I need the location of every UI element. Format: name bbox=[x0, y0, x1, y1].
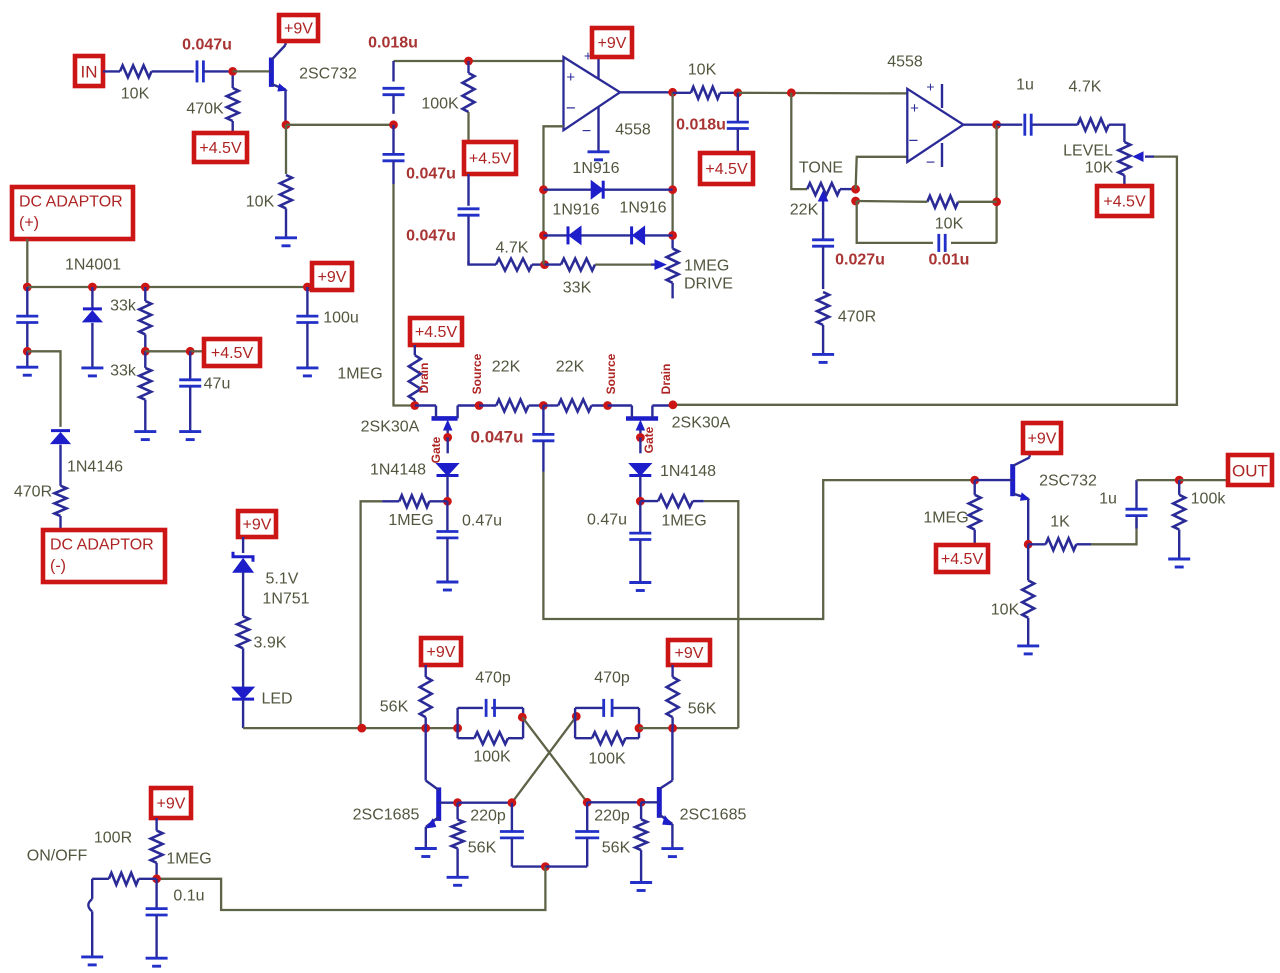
svg-text:0.018u: 0.018u bbox=[676, 117, 726, 134]
svg-text:+4.5V: +4.5V bbox=[199, 140, 242, 157]
wire fb right column bbox=[671, 92, 673, 235]
svg-text:33k: 33k bbox=[110, 298, 137, 315]
label 1MEG drive bbox=[684, 258, 729, 275]
svg-text:2SC732: 2SC732 bbox=[299, 66, 357, 83]
node rail divider bbox=[141, 283, 150, 292]
ground 33k bbox=[134, 432, 156, 440]
label 33K bbox=[563, 280, 592, 297]
wire node A to Q1 base bbox=[233, 70, 269, 72]
label 100R bbox=[94, 830, 132, 847]
wire 1u to out node bbox=[1137, 479, 1180, 481]
svg-text:2SC1685: 2SC1685 bbox=[353, 807, 420, 824]
svg-text:4558: 4558 bbox=[615, 122, 651, 139]
resistor 10K opamp2 fb bbox=[927, 196, 958, 208]
label 470R tone bbox=[838, 309, 876, 326]
wire +4.5V to cap bbox=[467, 174, 469, 206]
resistor 10K post opamp1 bbox=[673, 87, 738, 99]
label 0.47u right bbox=[587, 512, 627, 529]
svg-text:100u: 100u bbox=[323, 310, 359, 327]
label 1MEG drain bias bbox=[337, 366, 382, 383]
svg-text:33K: 33K bbox=[563, 280, 592, 297]
wire 0.01u rail bbox=[857, 201, 933, 243]
label 56K right base bbox=[602, 840, 631, 857]
svg-text:+9V: +9V bbox=[427, 644, 456, 661]
svg-text:+9V: +9V bbox=[284, 21, 313, 38]
wire dc+ down bbox=[26, 239, 28, 287]
resistor 33k lower bbox=[139, 351, 151, 431]
svg-text:0.1u: 0.1u bbox=[173, 888, 204, 905]
wire fb2 right bbox=[958, 201, 997, 203]
svg-text:1N4148: 1N4148 bbox=[370, 462, 426, 479]
wire left gate lead bbox=[447, 437, 449, 453]
ground 0.47u right bbox=[629, 583, 651, 591]
svg-text:1N751: 1N751 bbox=[262, 591, 309, 608]
label 1N4148 right bbox=[660, 463, 716, 480]
label 2SC1685 right bbox=[680, 807, 747, 824]
svg-text:2SK30A: 2SK30A bbox=[672, 415, 731, 432]
svg-text:100K: 100K bbox=[473, 749, 511, 766]
svg-text:1N4001: 1N4001 bbox=[65, 257, 121, 274]
node right drain bbox=[669, 400, 678, 409]
label 470K bbox=[186, 101, 224, 118]
svg-text:100K: 100K bbox=[588, 751, 626, 768]
wire diode rail top bbox=[544, 188, 673, 190]
svg-text:0.47u: 0.47u bbox=[587, 512, 627, 529]
potentiometer LEVEL 10K bbox=[1118, 142, 1130, 186]
capacitor 470p right bbox=[604, 699, 612, 717]
transistor Q5 2SC1685 left bbox=[426, 728, 458, 848]
node post 10K bbox=[733, 88, 742, 97]
node left gate bbox=[443, 433, 452, 442]
svg-text:IN: IN bbox=[81, 63, 98, 82]
label 2SK30A right bbox=[672, 415, 731, 432]
svg-text:470R: 470R bbox=[838, 309, 876, 326]
svg-text:1N916: 1N916 bbox=[572, 160, 619, 177]
wire R to C 0.047u bbox=[152, 70, 194, 72]
capacitor 0.01u bbox=[939, 234, 945, 252]
label 1N4146 bbox=[67, 459, 123, 476]
wire 3.9K to LED bbox=[242, 648, 244, 688]
node opamp1 plus rail bbox=[464, 57, 473, 66]
node combo right cross bbox=[572, 712, 581, 721]
wire cross right to left base bbox=[512, 716, 576, 802]
wire opamp2 output bbox=[963, 123, 996, 125]
wire 220p common to switch bbox=[157, 867, 546, 910]
label 220p right bbox=[594, 808, 630, 825]
label 4558 first bbox=[615, 122, 651, 139]
node out base bbox=[970, 476, 979, 485]
svg-text:+4.5V: +4.5V bbox=[1103, 194, 1146, 211]
svg-text:LED: LED bbox=[261, 691, 292, 708]
svg-text:470K: 470K bbox=[186, 101, 224, 118]
svg-text:4.7K: 4.7K bbox=[1069, 79, 1102, 96]
svg-text:+4.5V: +4.5V bbox=[469, 151, 512, 168]
capacitor 1u out bbox=[1126, 480, 1148, 528]
svg-text:+9V: +9V bbox=[598, 35, 627, 52]
svg-text:56K: 56K bbox=[468, 840, 497, 857]
wire chain top rail bbox=[394, 60, 564, 62]
node right base bbox=[637, 798, 646, 807]
node right gate bbox=[636, 433, 645, 442]
svg-text:22K: 22K bbox=[556, 359, 585, 376]
wire led chain top bbox=[242, 537, 244, 553]
ground 0.1u bbox=[146, 958, 168, 966]
svg-text:1MEG: 1MEG bbox=[661, 513, 706, 530]
svg-text:+9V: +9V bbox=[318, 269, 347, 286]
jfet Q2 2SK30A left bbox=[415, 406, 479, 438]
ground 56K left base bbox=[447, 877, 469, 885]
svg-text:+9V: +9V bbox=[243, 517, 272, 534]
svg-text:0.01u: 0.01u bbox=[929, 252, 970, 269]
diode 1N4148 left bbox=[437, 464, 459, 476]
svg-text:Gate: Gate bbox=[429, 436, 443, 463]
node left cap top bbox=[508, 798, 517, 807]
label 2SC1685 left bbox=[353, 807, 420, 824]
node fb left top bbox=[539, 185, 548, 194]
label 1N916 bl bbox=[552, 202, 599, 219]
supply +9V (ff right) bbox=[668, 640, 710, 665]
resistor 56K right pullup bbox=[667, 665, 679, 728]
wire right base to Q6 bbox=[587, 801, 641, 803]
svg-text:33k: 33k bbox=[110, 363, 137, 380]
wire right diode to node bbox=[639, 476, 641, 502]
resistor 4.7K opamp1 bbox=[496, 259, 545, 271]
potentiometer TONE 22K bbox=[807, 183, 855, 195]
svg-text:(-): (-) bbox=[50, 558, 66, 575]
svg-text:ON/OFF: ON/OFF bbox=[27, 848, 88, 865]
op-amp U1A 4558 bbox=[564, 57, 621, 130]
label 1u level bbox=[1016, 77, 1034, 94]
wire post10K rail bbox=[738, 92, 908, 95]
wire out to 1u bbox=[997, 123, 1023, 125]
wire flipflop rail left bbox=[243, 727, 458, 729]
wire 220p left bottom bbox=[512, 865, 546, 867]
svg-text:−: − bbox=[566, 99, 576, 118]
supply +4.5V (100K) bbox=[464, 142, 516, 174]
wire left diode to node bbox=[446, 476, 448, 502]
svg-text:22K: 22K bbox=[790, 202, 819, 219]
node chain mid bbox=[389, 120, 398, 129]
supply +9V (rail) bbox=[312, 263, 352, 290]
diode 1N916 top bbox=[591, 181, 603, 199]
resistor 1MEG out base bbox=[969, 480, 981, 545]
label 0.018u tone bbox=[676, 117, 726, 134]
label 10K level bbox=[1085, 160, 1114, 177]
supply +4.5V (divider) bbox=[204, 339, 260, 366]
label 0.018u chain bbox=[368, 35, 418, 52]
resistor 33k upper bbox=[139, 287, 151, 351]
label 0.1u bbox=[173, 888, 204, 905]
resistor 100k out bbox=[1173, 480, 1185, 559]
wire 1u to 4.7K bbox=[1031, 123, 1077, 125]
svg-text:−: − bbox=[909, 131, 919, 150]
label 1N4148 left bbox=[370, 462, 426, 479]
combo left bars bbox=[458, 708, 523, 738]
diode 1N4146 bbox=[51, 431, 70, 444]
wire opamp1 output bbox=[620, 91, 673, 93]
wire left gate to flipflop bbox=[361, 501, 383, 728]
node left source bbox=[475, 401, 484, 410]
label TONE bbox=[799, 160, 843, 177]
label 4.7K out bbox=[1069, 79, 1102, 96]
label 2SK30A left bbox=[361, 419, 420, 436]
svg-text:LEVEL: LEVEL bbox=[1063, 143, 1113, 160]
svg-text:0.047u: 0.047u bbox=[406, 166, 456, 183]
power pin V- opamp2 bbox=[926, 143, 942, 172]
node rail combo left bbox=[453, 724, 462, 733]
resistor 56K right base bbox=[635, 802, 647, 882]
node left drain bbox=[410, 401, 419, 410]
supply +9V (on/off) bbox=[151, 788, 191, 818]
resistor 1MEG drain bias bbox=[409, 345, 421, 406]
label 1MEG right gate bbox=[661, 513, 706, 530]
wire dc cap gnd bbox=[26, 351, 28, 367]
svg-text:470p: 470p bbox=[475, 670, 511, 687]
supply +9V (opamp1) bbox=[592, 28, 632, 57]
op-amp U1B 4558 bbox=[907, 89, 963, 162]
label 1N916 br bbox=[619, 200, 666, 217]
ground Q5 emitter bbox=[415, 849, 437, 857]
label 33k upper bbox=[110, 298, 137, 315]
resistor 1MEG onoff bbox=[151, 818, 163, 879]
wire fb left column bbox=[542, 190, 544, 265]
capacitor 0.047u mid bbox=[532, 406, 554, 472]
wire opamp2 inv feed bbox=[856, 157, 908, 189]
wire tone branch down bbox=[791, 93, 807, 189]
wire left base to cap bbox=[458, 802, 512, 804]
svg-text:+4.5V: +4.5V bbox=[705, 161, 748, 178]
label 1MEG left gate bbox=[388, 512, 433, 529]
node combo left cross bbox=[518, 713, 527, 722]
label 470p right bbox=[594, 670, 630, 687]
resistor 100K right bbox=[592, 732, 626, 744]
svg-text:1MEG: 1MEG bbox=[684, 258, 729, 275]
resistor 1MEG left gate bbox=[399, 495, 447, 507]
supply +9V (Q1) bbox=[279, 15, 318, 41]
resistor 1MEG right gate bbox=[640, 495, 692, 507]
wiper arrow LEVEL bbox=[1134, 152, 1155, 161]
capacitor dc input bbox=[16, 287, 38, 351]
svg-text:2SK30A: 2SK30A bbox=[361, 419, 420, 436]
ground 100k bbox=[1168, 559, 1190, 567]
wire 100K to +4.5V bbox=[467, 112, 469, 142]
svg-text:TONE: TONE bbox=[799, 160, 843, 177]
resistor 1K bbox=[1028, 538, 1091, 550]
label 56K left base bbox=[468, 840, 497, 857]
label 0.047u mid bbox=[471, 428, 524, 447]
ground switch bbox=[81, 957, 103, 965]
wire chain vertical top bbox=[392, 61, 394, 82]
wire chain mid bbox=[392, 125, 394, 155]
wire right gate lead bbox=[639, 438, 641, 454]
node fb2 right bbox=[992, 197, 1001, 206]
svg-text:+: + bbox=[910, 100, 919, 117]
capacitor 1u level bbox=[1025, 114, 1031, 136]
wire flipflop rail right bbox=[639, 727, 738, 729]
label 4.7K opamp1 bbox=[496, 240, 529, 257]
ground opamp1 V- bbox=[588, 152, 610, 160]
label 10K post bbox=[688, 62, 717, 79]
supply +4.5V (level) bbox=[1097, 186, 1152, 216]
svg-text:1N4148: 1N4148 bbox=[660, 463, 716, 480]
svg-text:Source: Source bbox=[470, 353, 484, 394]
transistor Q1 2SC732 input buffer bbox=[269, 41, 287, 125]
svg-text:56K: 56K bbox=[602, 840, 631, 857]
wire level wiper route bbox=[673, 157, 1177, 405]
label 3.9K bbox=[254, 635, 287, 652]
supply +4.5V (470K) bbox=[194, 133, 247, 162]
node rail dc+ bbox=[23, 283, 32, 292]
power pin V- opamp1 bbox=[582, 107, 599, 152]
node +4.5V ref bbox=[186, 347, 195, 356]
supply +4.5V (out base) bbox=[936, 545, 988, 572]
wire opamp1 inverting input bbox=[544, 126, 564, 189]
wire 220p right bottom bbox=[545, 865, 587, 867]
wiper arrow TONE bbox=[819, 192, 828, 241]
capacitor 0.47u right bbox=[629, 501, 651, 582]
label 0.01u bbox=[929, 252, 970, 269]
svg-text:Source: Source bbox=[604, 353, 618, 394]
label 10K out emitter bbox=[991, 602, 1020, 619]
svg-text:1MEG: 1MEG bbox=[166, 851, 211, 868]
svg-text:1MEG: 1MEG bbox=[388, 512, 433, 529]
combo right bars bbox=[575, 708, 639, 738]
svg-text:+4.5V: +4.5V bbox=[211, 345, 254, 362]
label 2SC732 out bbox=[1039, 473, 1097, 490]
svg-text:DC ADAPTOR: DC ADAPTOR bbox=[19, 194, 123, 211]
wire dc- route bbox=[27, 351, 60, 427]
svg-text:DRIVE: DRIVE bbox=[684, 276, 733, 293]
label 47u bbox=[204, 376, 231, 393]
svg-text:2SC732: 2SC732 bbox=[1039, 473, 1097, 490]
svg-text:+: + bbox=[926, 79, 934, 95]
wire d1 gnd lead bbox=[91, 323, 93, 368]
wire 1K to 1u out bbox=[1091, 519, 1137, 544]
svg-text:0.047u: 0.047u bbox=[406, 228, 456, 245]
label 22K tone bbox=[790, 202, 819, 219]
node tone fb bbox=[851, 197, 860, 206]
ground tone bbox=[812, 354, 834, 362]
svg-text:+: + bbox=[566, 69, 575, 86]
node A input bbox=[228, 67, 237, 76]
wire cap to 4.7K bbox=[469, 261, 497, 265]
svg-text:10K: 10K bbox=[991, 602, 1020, 619]
svg-text:+9V: +9V bbox=[1028, 431, 1057, 448]
wire d1 lead bbox=[91, 287, 93, 309]
label 1MEG out bbox=[923, 510, 968, 527]
resistor 470R dc bbox=[55, 486, 67, 531]
node Q1 emitter bbox=[282, 120, 291, 129]
label 5.1V bbox=[266, 571, 299, 588]
wire 33K to drive pot wiper bbox=[595, 263, 651, 265]
svg-text:−: − bbox=[582, 123, 591, 140]
wire mid cap to out buffer bbox=[543, 472, 974, 620]
ground out emitter bbox=[1017, 646, 1039, 654]
label 100K opamp1 bbox=[421, 96, 459, 113]
node 4.7K 33K junction bbox=[540, 260, 549, 269]
transistor Q6 2SC1685 right bbox=[641, 728, 672, 849]
resistor 100K opamp1 bbox=[463, 73, 475, 112]
supply +4.5V (0.018u) bbox=[700, 153, 753, 184]
svg-text:1N916: 1N916 bbox=[552, 202, 599, 219]
label 1u out bbox=[1099, 491, 1117, 508]
wire power rail bbox=[27, 286, 307, 288]
wire divider to 4.5 node bbox=[145, 350, 190, 352]
capacitor 47u bbox=[179, 351, 201, 431]
ground 0.47u left bbox=[436, 582, 458, 590]
svg-text:1K: 1K bbox=[1050, 514, 1070, 531]
node fb right bottom bbox=[668, 231, 677, 240]
diode 1N916 bottom left bbox=[568, 226, 581, 244]
node rail d1 bbox=[88, 283, 97, 292]
node OUT bbox=[1175, 476, 1184, 485]
node right cap top bbox=[583, 798, 592, 807]
switch ON/OFF momentary bbox=[88, 879, 92, 957]
svg-text:−: − bbox=[926, 155, 935, 172]
label 1N751 bbox=[262, 591, 309, 608]
label 1MEG onoff bbox=[166, 851, 211, 868]
resistor 22K left bbox=[479, 400, 543, 412]
power pin V+ opamp2 bbox=[926, 79, 942, 109]
resistor 22K right bbox=[543, 400, 607, 412]
svg-text:220p: 220p bbox=[594, 808, 630, 825]
resistor 470K bbox=[227, 75, 239, 133]
label 1N916 top bbox=[572, 160, 619, 177]
label 10K input bbox=[121, 86, 150, 103]
label 0.047u bias bbox=[406, 228, 456, 245]
svg-text:470p: 470p bbox=[594, 670, 630, 687]
label 470p left bbox=[475, 670, 511, 687]
svg-text:10K: 10K bbox=[935, 216, 964, 233]
svg-text:4.7K: 4.7K bbox=[496, 240, 529, 257]
label Gate left bbox=[429, 436, 443, 463]
label 56K right pullup bbox=[688, 701, 717, 718]
svg-text:+4.5V: +4.5V bbox=[415, 324, 458, 341]
resistor 100R bbox=[92, 873, 156, 885]
label 0.027u bbox=[835, 252, 885, 269]
svg-text:5.1V: 5.1V bbox=[266, 571, 299, 588]
node right source bbox=[603, 401, 612, 410]
label 1N4001 bbox=[65, 257, 121, 274]
ground 56K right base bbox=[630, 883, 652, 891]
label 100k out bbox=[1191, 491, 1227, 508]
supply +9V (out buffer) bbox=[1023, 423, 1061, 453]
svg-text:1MEG: 1MEG bbox=[337, 366, 382, 383]
wire zener to 3.9K bbox=[242, 572, 244, 616]
label 56K left pullup bbox=[380, 699, 409, 716]
label 100K right bbox=[588, 751, 626, 768]
label 220p left bbox=[470, 808, 506, 825]
resistor 56K left pullup bbox=[420, 665, 432, 728]
svg-text:100k: 100k bbox=[1191, 491, 1227, 508]
port DC ADAPTOR minus bbox=[43, 530, 165, 582]
capacitor 0.018u tone bbox=[727, 93, 749, 153]
svg-text:10K: 10K bbox=[1085, 160, 1114, 177]
potentiometer 1MEG DRIVE wiper arrow bbox=[651, 260, 666, 269]
wire out node to OUT bbox=[1179, 479, 1228, 481]
capacitor 220p right bbox=[575, 802, 599, 866]
node dc gnd bbox=[23, 347, 32, 356]
svg-text:1N4146: 1N4146 bbox=[67, 459, 123, 476]
svg-text:0.027u: 0.027u bbox=[835, 252, 885, 269]
node rail 1meg left bbox=[357, 724, 366, 733]
svg-text:3.9K: 3.9K bbox=[254, 635, 287, 652]
svg-text:0.47u: 0.47u bbox=[462, 513, 502, 530]
resistor 10K input bbox=[120, 65, 152, 77]
svg-text:100R: 100R bbox=[94, 830, 132, 847]
ground Q6 emitter bbox=[661, 849, 683, 857]
svg-text:22K: 22K bbox=[492, 359, 521, 376]
